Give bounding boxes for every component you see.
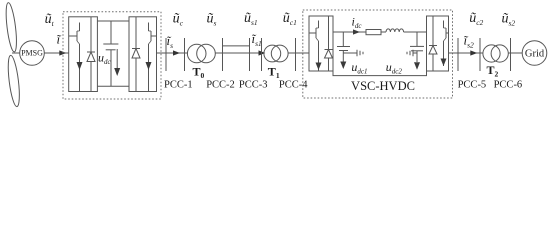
wind turbine blade upper xyxy=(4,2,18,52)
hvdc top rail left xyxy=(333,31,366,33)
svg-text:T1: T1 xyxy=(268,65,280,81)
dc top rail converter1 xyxy=(97,20,129,22)
wind turbine blade lower xyxy=(6,55,21,107)
transmission line lower conductor (main wire) xyxy=(223,52,250,54)
diode D1 cathode bar xyxy=(87,51,95,53)
wire PCC-3 to T1 xyxy=(250,52,265,54)
dashed box VSC-HVDC xyxy=(303,10,453,98)
svg-text:udc: udc xyxy=(98,51,112,67)
transformer T1 circle a xyxy=(264,45,281,62)
arrow i_s2 xyxy=(470,50,477,55)
transformer T0 circle b xyxy=(197,44,216,63)
IGBT Q3 emitter arrow xyxy=(316,63,322,71)
IGBT Q2 bar xyxy=(150,31,152,41)
wire converter to PCC-1 xyxy=(157,52,189,54)
inductor L coil xyxy=(386,29,404,32)
busbar left of T2 xyxy=(479,38,481,71)
busbar PCC-5 xyxy=(457,38,459,71)
converter box right (grid-side) xyxy=(129,17,157,92)
diode D4 cathode bar xyxy=(429,45,437,47)
busbar left of T1 xyxy=(261,38,263,71)
hvdc bottom rail xyxy=(333,71,427,76)
svg-text:ũc: ũc xyxy=(173,12,184,28)
voltage arrow u_dc2 xyxy=(414,62,420,70)
svg-text:udc1: udc1 xyxy=(351,60,367,76)
hvdc top rail right xyxy=(404,31,427,33)
IGBT Q2 collector line xyxy=(148,23,150,32)
busbar PCC-1 xyxy=(165,38,167,71)
IGBT Q3 collector line xyxy=(318,21,320,29)
IGBT Q3 bar xyxy=(315,28,317,38)
diode D2 cathode bar xyxy=(132,48,140,50)
diode D3 cathode bar xyxy=(325,49,333,51)
svg-text:T2: T2 xyxy=(487,63,499,79)
IGBT Q3 gate lead xyxy=(309,32,316,34)
svg-text:ĩs2: ĩs2 xyxy=(464,33,475,50)
IGBT Q4 gate lead xyxy=(446,32,449,34)
IGBT Q1 gate lead xyxy=(69,35,77,37)
Grid circle xyxy=(522,41,547,66)
svg-text:ĩs: ĩs xyxy=(167,33,174,50)
IGBT Q4 emitter line xyxy=(443,41,445,66)
IGBT Q2 emitter arrow xyxy=(146,62,152,70)
diode D4 triangle xyxy=(429,46,437,55)
ground at C1 midpoint xyxy=(343,52,357,54)
svg-text:PCC-1: PCC-1 xyxy=(164,79,193,90)
HVDC converter box left xyxy=(309,16,333,71)
converter box left (machine-side) xyxy=(69,17,98,92)
arrow i_s xyxy=(173,50,180,55)
svg-text:Grid: Grid xyxy=(525,49,545,60)
transmission line upper conductor xyxy=(223,45,250,47)
arrow i (PMSG current) xyxy=(59,50,66,55)
wire PCC-4 into HVDC xyxy=(296,52,310,54)
hvdc capacitor C2 xyxy=(416,32,418,46)
svg-text:PCC-5: PCC-5 xyxy=(458,79,487,90)
svg-text:ũc1: ũc1 xyxy=(283,11,297,27)
diode D2 line xyxy=(135,17,137,92)
wire PMSG to converter box xyxy=(44,52,68,54)
svg-text:ũs2: ũs2 xyxy=(502,12,516,28)
svg-text:T0: T0 xyxy=(193,65,205,81)
transformer T2 circle a xyxy=(483,45,500,62)
svg-text:PCC-4: PCC-4 xyxy=(279,79,308,90)
svg-text:PCC-6: PCC-6 xyxy=(494,79,523,90)
svg-text:ũs: ũs xyxy=(207,12,217,28)
busbar PCC-2 xyxy=(222,38,224,71)
resistor R rect xyxy=(366,30,381,35)
svg-text:VSC-HVDC: VSC-HVDC xyxy=(351,79,415,93)
IGBT Q1 emitter line xyxy=(79,44,81,92)
svg-text:ĩ: ĩ xyxy=(57,31,62,46)
svg-text:PCC-3: PCC-3 xyxy=(239,79,268,90)
wire R to L xyxy=(381,31,386,33)
diode D1 line xyxy=(90,17,92,92)
HVDC converter box right xyxy=(427,16,449,71)
svg-text:PMSG: PMSG xyxy=(21,49,43,58)
hvdc capacitor C1 xyxy=(342,32,344,47)
voltage arrow u_dc xyxy=(116,49,118,70)
arrow i_s1 xyxy=(259,50,266,55)
generator PMSG circle xyxy=(20,41,45,66)
IGBT Q2 emitter line xyxy=(148,44,150,92)
wire T2 to Grid xyxy=(508,52,522,54)
IGBT Q1 bar xyxy=(76,31,78,41)
wire T1 to PCC-4 xyxy=(288,52,309,54)
busbar left of T0 xyxy=(184,38,186,71)
transformer T2 circle b xyxy=(491,45,508,62)
svg-text:ĩs1: ĩs1 xyxy=(252,31,262,48)
wire HVDC to PCC-5 xyxy=(449,52,484,54)
svg-text:ũc2: ũc2 xyxy=(469,11,483,27)
IGBT Q4 collector line xyxy=(443,21,445,29)
busbar PCC-3 xyxy=(249,38,251,71)
svg-text:idc: idc xyxy=(352,15,363,31)
dc bottom rail converter1 xyxy=(97,85,129,87)
busbar PCC-4 xyxy=(295,38,297,71)
svg-text:udc2: udc2 xyxy=(386,60,403,76)
dc-link capacitor C xyxy=(110,21,112,44)
transformer T0 circle a xyxy=(187,44,206,63)
ground at C2 midpoint xyxy=(413,52,417,54)
svg-text:ũt: ũt xyxy=(45,12,55,28)
voltage arrow u_dc1 xyxy=(340,62,346,70)
svg-text:ũs1: ũs1 xyxy=(244,11,258,27)
IGBT Q1 emitter arrow xyxy=(77,62,83,70)
transformer T1 circle b xyxy=(271,45,288,62)
diode D3 line xyxy=(328,16,330,71)
IGBT Q2 gate lead xyxy=(151,35,157,37)
arrow i_dc xyxy=(353,29,360,34)
svg-text:PCC-2: PCC-2 xyxy=(206,79,235,90)
IGBT Q4 emitter arrow xyxy=(441,59,447,67)
diode D1 triangle xyxy=(87,52,95,62)
diode D2 triangle xyxy=(132,49,140,59)
wire T0 to PCC-2 xyxy=(215,52,222,54)
busbar PCC-6 xyxy=(510,38,512,71)
IGBT Q1 collector line xyxy=(79,23,81,32)
IGBT Q4 bar xyxy=(445,28,447,38)
diode D3 triangle xyxy=(325,50,333,59)
dashed box back-to-back converter xyxy=(63,12,161,99)
IGBT Q3 emitter line xyxy=(318,41,320,71)
diode D4 line xyxy=(432,16,434,71)
wire hub to PMSG xyxy=(12,52,20,54)
